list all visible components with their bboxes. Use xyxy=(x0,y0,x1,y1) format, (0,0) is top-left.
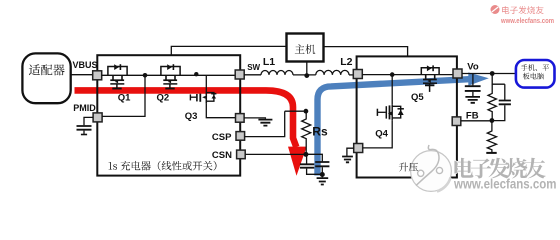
wire battery top branch xyxy=(307,154,323,161)
pin pad PMID xyxy=(93,113,102,122)
resistor Rs xyxy=(302,111,311,154)
wire Vo node down to R1/C xyxy=(492,74,505,85)
svg-text:Q2: Q2 xyxy=(157,93,170,104)
wire rail to Q3 drain xyxy=(205,75,207,92)
wire SW pad to L1 xyxy=(244,74,261,76)
discharge current arrowhead (blue) xyxy=(468,72,489,85)
adapter box 适配器 xyxy=(22,53,70,103)
capacitor battery cell (left) xyxy=(306,154,308,163)
watermark top 电子发烧友 xyxy=(502,6,543,14)
transistor Q2 (PMOS w/ body diode) xyxy=(161,64,180,88)
capacitor battery cell (right) xyxy=(315,162,329,166)
wire Q4 source to GND pad xyxy=(363,120,392,148)
wire VBUS rail to SW xyxy=(102,74,236,76)
capacitor output xyxy=(472,74,474,86)
wire boost rail xyxy=(362,74,453,76)
svg-text:PMID: PMID xyxy=(73,103,96,113)
wire PMID pad to bypass cap xyxy=(84,117,93,125)
wire rail to Q4 xyxy=(391,75,393,105)
svg-text:CSP: CSP xyxy=(212,132,232,143)
charger block 1s outline xyxy=(97,55,240,175)
wire node to PMID pad xyxy=(102,75,145,116)
ground PMID cap xyxy=(81,134,87,136)
ground R2 xyxy=(486,152,496,154)
node battery bottom xyxy=(320,172,325,177)
transistor Q5 (PMOS w/ body diode) xyxy=(421,65,439,92)
svg-text:Q4: Q4 xyxy=(375,129,388,140)
wire Vo to load xyxy=(462,73,516,75)
label 手机、平 xyxy=(521,64,549,71)
watermark top-right logo dot xyxy=(491,5,500,14)
wire PGND pad to ground xyxy=(244,118,265,119)
node Rs top / CSP junction xyxy=(304,109,309,114)
svg-text:CSN: CSN xyxy=(212,150,232,161)
pin pad VBUS xyxy=(93,71,102,80)
pin pad Vo xyxy=(453,69,462,78)
wire Q3 source to PGND pad xyxy=(206,104,235,118)
wire boost GND pad to ground xyxy=(347,148,354,156)
ground battery xyxy=(321,175,323,178)
svg-text:Vo: Vo xyxy=(467,61,479,72)
svg-text:L1: L1 xyxy=(263,56,275,68)
wire adapter to VBUS pad xyxy=(71,74,93,76)
label 板电脑 xyxy=(523,73,544,80)
svg-text:Q5: Q5 xyxy=(411,92,424,103)
wire host left to charger top xyxy=(171,46,286,55)
transistor Q3 (vertical FET w/ body diode) xyxy=(190,92,216,103)
node Q2-Q3 junction xyxy=(194,72,198,76)
host box 主机 xyxy=(287,34,324,62)
node feedback divider top xyxy=(490,71,495,76)
capacitor feed-forward xyxy=(504,84,506,100)
svg-text:VBUS: VBUS xyxy=(73,60,98,70)
ground boost xyxy=(342,157,353,163)
node CSN / battery junction xyxy=(303,152,308,157)
label 1s 充电器（线性或开关） xyxy=(109,161,217,171)
pin pad boost GND xyxy=(354,144,363,153)
watermark logo circle (white, occludes boost bottom edge) xyxy=(411,145,452,192)
inductor L2 xyxy=(316,70,349,75)
node Q1-Q2 junction xyxy=(143,73,148,78)
node host tap xyxy=(304,73,309,78)
load box 手机、平板电脑 xyxy=(516,60,555,88)
charge current arrowhead (red) xyxy=(288,147,307,176)
wire FB pad to divider xyxy=(461,120,492,122)
pin pad FB xyxy=(452,117,461,126)
svg-text:FB: FB xyxy=(466,110,479,121)
resistor R2 (lower divider) xyxy=(487,121,496,153)
wire CSN to battery node xyxy=(245,153,305,155)
wire CSP to Rs top (L-shape) xyxy=(245,111,304,136)
transistor Q4 (vertical FET w/ body diode) xyxy=(377,105,404,120)
pin pad boost L2 input xyxy=(353,70,362,79)
transistor Q1 (PMOS w/ body diode) xyxy=(108,64,127,88)
wire L2 to boost input pad xyxy=(349,74,354,76)
svg-text:SW: SW xyxy=(247,63,260,72)
resistor R1 (upper divider) xyxy=(488,84,496,120)
label 适配器 xyxy=(29,64,65,75)
svg-text:www.elecfans.com: www.elecfans.com xyxy=(453,176,556,191)
charge current path (red band) xyxy=(75,90,297,147)
label 主机 xyxy=(295,44,316,54)
wire node to host box xyxy=(306,62,308,76)
wire host right to boost top xyxy=(324,47,408,57)
node Q4 drain junction xyxy=(390,72,395,77)
svg-text:Q3: Q3 xyxy=(185,111,198,122)
watermark 电子发烧友 xyxy=(454,158,545,179)
pin pad SW xyxy=(235,70,244,79)
label 升压 xyxy=(399,163,418,172)
inductor L1 xyxy=(261,71,293,75)
capacitor PMID bypass xyxy=(77,126,92,130)
boost block outline xyxy=(357,56,457,177)
svg-text:www.elecfans.com: www.elecfans.com xyxy=(500,16,554,25)
pin pad CSP xyxy=(236,132,245,141)
node FB junction xyxy=(490,118,495,123)
discharge current path (blue band) xyxy=(318,79,470,175)
svg-text:Rs: Rs xyxy=(312,125,328,139)
ground PGND xyxy=(258,120,272,126)
svg-text:L2: L2 xyxy=(340,56,352,68)
wire L1 to L2 xyxy=(293,74,316,76)
svg-text:Q1: Q1 xyxy=(118,93,131,104)
pin pad CSN xyxy=(237,150,246,159)
ground output cap xyxy=(465,97,480,103)
pin pad PGND xyxy=(236,114,245,123)
